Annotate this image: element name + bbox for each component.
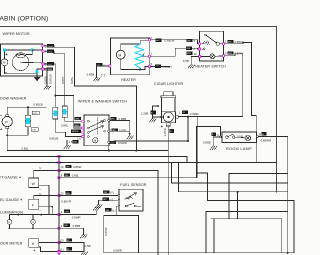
wire 0.5WR drop — [138, 216, 140, 253]
illum bottom dots — [9, 227, 11, 229]
pin 10 — [58, 169, 61, 172]
svg-text:0.85L: 0.85L — [21, 146, 29, 150]
wire y211 link — [206, 211, 288, 213]
svg-text:0.85L: 0.85L — [61, 123, 69, 127]
svg-text:0.5WR: 0.5WR — [190, 112, 199, 116]
svg-text:0.5B: 0.5B — [85, 244, 91, 248]
heater motor M — [116, 50, 125, 59]
wire S right-down — [44, 64, 55, 108]
svg-text:0.85W: 0.85W — [73, 165, 82, 169]
pin P — [42, 50, 45, 53]
svg-text:HEATER: HEATER — [121, 78, 136, 82]
svg-text:CIGAR LIGHTER: CIGAR LIGHTER — [154, 82, 184, 86]
wire hm pin1 — [39, 247, 59, 252]
heater tap arrow — [143, 54, 149, 57]
svg-text:0.85LB: 0.85LB — [33, 103, 42, 107]
pin heater left — [108, 65, 111, 68]
ground wiper motor — [34, 77, 40, 81]
label cigar bottom conn — [170, 129, 174, 133]
label cigar conn box — [150, 110, 155, 114]
fuel gauge box — [29, 199, 39, 209]
svg-text:05W: 05W — [110, 143, 114, 145]
ground ww — [127, 136, 134, 139]
svg-text:0.85B: 0.85B — [87, 73, 95, 77]
svg-text:05W: 05W — [65, 211, 69, 213]
wire wt minus down — [39, 185, 49, 214]
switch arm 1 — [89, 121, 104, 128]
pin ww3 — [81, 131, 84, 134]
junction cyan C — [36, 70, 39, 73]
svg-text:0.85LB: 0.85LB — [49, 136, 58, 140]
wire x237 drop — [237, 192, 239, 219]
pin hs L2 — [198, 48, 201, 51]
wire x281 drop — [281, 219, 283, 253]
pin E — [42, 68, 45, 71]
pin 8 — [58, 176, 61, 179]
wiper washer switch box — [84, 115, 109, 146]
heater switch box — [200, 31, 224, 61]
wire P right-down — [44, 51, 64, 106]
wire hs10 ground — [191, 56, 198, 64]
wire cigar right drop — [187, 117, 189, 141]
wire y173 link — [229, 173, 288, 175]
svg-text:LUMINATION: LUMINATION — [0, 211, 23, 215]
svg-text:B: B — [259, 132, 261, 136]
wire room switch to bulb — [235, 136, 245, 138]
ground room lamp — [210, 146, 217, 149]
wire heater3 up-right — [151, 65, 170, 67]
svg-text:12: 12 — [60, 191, 64, 195]
label (L) — [105, 208, 111, 211]
node bottom bus dot — [287, 252, 289, 254]
wire wt U to pin10 — [34, 171, 59, 179]
ground cigar — [150, 119, 157, 122]
wire hs R1 0.85LW down — [225, 42, 256, 162]
wire pump minus down — [7, 129, 168, 151]
wire 0.85W drop — [103, 216, 105, 253]
room lamp box — [222, 132, 257, 143]
heater switch lamp — [210, 54, 215, 59]
wire fuel L split — [104, 215, 139, 217]
wire fuel minus ground — [99, 200, 119, 204]
connector washer — [25, 115, 30, 127]
pin ww1 — [81, 120, 84, 123]
svg-text:/T GAUGE +: /T GAUGE + — [0, 175, 21, 179]
node S junction dot — [54, 95, 56, 97]
node cigar left terminal dot — [160, 116, 162, 118]
svg-text:0.85B: 0.85B — [73, 224, 81, 228]
heater switch contacts — [205, 34, 207, 36]
switch washer motor — [93, 138, 98, 143]
svg-text:10: 10 — [193, 52, 197, 56]
wire S branch to switch pin2 — [55, 96, 82, 128]
svg-text:OUR METER: OUR METER — [0, 241, 23, 245]
svg-text:0.5WR: 0.5WR — [118, 141, 127, 145]
label (Y) — [103, 190, 109, 193]
pin bus bottom — [58, 251, 61, 254]
svg-text:0.5B: 0.5B — [183, 59, 189, 63]
node y192 dot — [237, 191, 239, 193]
heater box — [111, 38, 150, 75]
svg-text:0.85B: 0.85B — [119, 129, 127, 133]
illum lamp2 — [31, 220, 36, 225]
wire hs R2 0.5RW down to cigar — [225, 54, 243, 117]
wire pin12 row to fuel sensor — [59, 195, 119, 197]
svg-text:DOW WASHER: DOW WASHER — [0, 97, 27, 101]
wire fuel L down — [116, 207, 118, 216]
pin 12 — [58, 194, 61, 197]
svg-text:1.0: 1.0 — [77, 137, 81, 141]
label connector ref 135 — [32, 111, 39, 114]
junction cyan B — [31, 49, 34, 52]
wire pump top to connector — [7, 107, 46, 115]
label ww pin2 — [74, 124, 81, 127]
wire cigar left terminal to ground drop — [153, 116, 162, 118]
switch arm 2 — [89, 126, 104, 132]
label ww r3 — [110, 141, 117, 144]
pin heater 1 — [148, 55, 151, 58]
pin 3 — [58, 213, 61, 216]
connector bus vertical — [58, 157, 60, 255]
wire room feed riser — [197, 127, 221, 178]
pin ww2 — [81, 127, 84, 130]
wiper motor M — [1, 59, 8, 66]
wire pin10 row to drop — [59, 171, 158, 255]
node fg minus dot — [51, 206, 53, 208]
ground E wire — [44, 86, 51, 89]
wire heater left ground — [97, 66, 109, 78]
wire x214 drop — [213, 219, 215, 253]
heater motor wires — [121, 40, 148, 50]
svg-text:15B: 15B — [73, 142, 77, 144]
pin S — [42, 63, 45, 66]
pin bus y162 — [58, 161, 61, 164]
wire cigar ground — [153, 106, 158, 119]
svg-text:0.85L: 0.85L — [70, 76, 74, 84]
svg-text:10: 10 — [60, 165, 64, 169]
wire lamp left — [200, 55, 210, 57]
label (-) — [103, 197, 109, 200]
wire P chain to switch pin1 — [65, 118, 83, 122]
wire washer connector to pump bottom — [7, 127, 28, 135]
svg-text:0.85YR: 0.85YR — [61, 199, 71, 203]
junction cyan A — [3, 49, 6, 52]
svg-text:0.85Y: 0.85Y — [61, 76, 65, 84]
svg-text:(L): (L) — [112, 209, 116, 213]
illum bottom wire — [10, 224, 59, 228]
pin (2) — [58, 241, 61, 244]
svg-text:085LB: 085LB — [72, 131, 79, 133]
wire heater2 to switch — [151, 40, 200, 44]
ground pin4 — [80, 235, 87, 238]
fuel sensor rheostat — [125, 193, 137, 200]
svg-text:FUEL SENSOR: FUEL SENSOR — [120, 183, 147, 187]
cigar element center — [167, 116, 169, 118]
wire room right down — [258, 137, 287, 253]
svg-text:0.85LW: 0.85LW — [49, 74, 53, 84]
wiper motor gear circle — [12, 54, 29, 71]
pin hs L3 — [198, 55, 201, 58]
node washer junction dot — [27, 106, 29, 108]
wire bus y183 — [172, 163, 288, 184]
cigar ground pin — [157, 105, 159, 107]
pin bus top — [58, 155, 61, 158]
ground pin3 — [93, 207, 100, 210]
cigar socket frame — [162, 112, 176, 123]
wire cigar right 0.5WR — [178, 116, 242, 118]
svg-text:0.5WR: 0.5WR — [113, 249, 122, 253]
pin room left — [219, 136, 221, 138]
label connector ref 136 — [31, 128, 38, 131]
wire S chain to switch pin3 — [55, 119, 82, 137]
cigar body — [162, 98, 175, 112]
wire motor- to ground — [5, 66, 38, 78]
wiper park cam — [16, 53, 26, 58]
wire fg U to pin12 — [34, 196, 59, 200]
node ww ground dot — [129, 133, 131, 135]
wire pin4 ground — [59, 228, 84, 234]
svg-text:WIPER MOTOR: WIPER MOTOR — [3, 32, 30, 36]
cigar element circle — [163, 112, 173, 122]
wiper motor box — [1, 44, 43, 76]
svg-text:0.85WR: 0.85WR — [261, 139, 271, 143]
fuel sensor pins — [118, 195, 120, 197]
wire washer connector drop — [27, 107, 29, 115]
connector P chain — [62, 106, 67, 118]
ground hm — [81, 252, 88, 255]
illum top dots — [17, 214, 19, 216]
wire motor+ top feed — [5, 50, 33, 59]
svg-text:0.85W: 0.85W — [104, 227, 108, 236]
pin ww right3 — [108, 141, 110, 143]
ground heater switch — [188, 65, 195, 68]
node B wire junction dot — [136, 150, 138, 152]
wire bus y156 — [0, 157, 187, 163]
wire cigar bottom down — [167, 126, 169, 255]
pin room right — [256, 136, 258, 138]
svg-text:(2): (2) — [60, 239, 64, 243]
fuel sensor float switch — [125, 205, 127, 207]
pin heater 3 — [148, 65, 151, 68]
pin B — [42, 44, 45, 47]
svg-text:05R: 05R — [187, 53, 191, 55]
wire x228 drop — [228, 174, 230, 219]
label heater 4 — [96, 63, 102, 66]
heater resistor endpoints — [139, 69, 141, 71]
switch pivots — [87, 120, 89, 122]
svg-text:(1): (1) — [60, 247, 64, 251]
wire park cam to P row — [32, 49, 42, 51]
svg-text:ABIN (OPTION): ABIN (OPTION) — [0, 16, 48, 23]
wire hm pin2 — [39, 242, 59, 244]
pin hs R1 — [222, 42, 225, 45]
ground 1.5B — [64, 145, 71, 148]
node pump bottom dot — [6, 134, 8, 136]
svg-text:+: + — [33, 249, 35, 253]
svg-text:EL GAUGE +: EL GAUGE + — [0, 198, 22, 202]
svg-text:F: F — [32, 204, 34, 208]
label hs 10 — [186, 52, 192, 55]
svg-text:U: U — [39, 166, 41, 170]
svg-text:P: P — [5, 120, 8, 125]
title underline rule — [0, 27, 276, 192]
wire stair to bottom right — [197, 173, 294, 253]
wire pin8 row — [59, 177, 197, 179]
pin ww right2 — [108, 130, 110, 132]
wire E row to ground node — [37, 69, 43, 74]
WT gauge box — [29, 178, 39, 187]
illum top wire — [10, 215, 59, 220]
label ww pin1 — [75, 117, 82, 120]
svg-text:05R: 05R — [228, 53, 232, 55]
connector S chain — [53, 107, 58, 119]
pin hs R2 — [222, 54, 225, 57]
ground fuel sensor — [96, 205, 103, 208]
wire ww r1 to r2 ground — [110, 120, 130, 133]
wire fg minus down — [39, 207, 53, 215]
label hs 3 — [186, 47, 192, 50]
illum lamp1 — [7, 220, 12, 225]
wire room left ground — [213, 137, 219, 146]
pin (1) — [58, 250, 61, 253]
svg-text:0.85B: 0.85B — [44, 76, 48, 84]
svg-text:−: − — [39, 188, 41, 192]
wire bottom bus — [104, 252, 294, 254]
svg-text:(−): (−) — [101, 73, 105, 77]
svg-text:ROOM LAMP: ROOM LAMP — [226, 147, 252, 151]
wire lamp right — [215, 55, 224, 58]
svg-text:0.5WR: 0.5WR — [72, 215, 81, 219]
wire x206 drop — [205, 212, 207, 253]
wire y192 link — [179, 163, 288, 192]
wire ww pin3 down stub — [108, 143, 110, 150]
pin 4 — [58, 227, 61, 230]
heater resistor cyan — [135, 44, 144, 70]
wire pin3 to ground — [59, 210, 96, 214]
wire B right-down — [44, 46, 136, 151]
room lamp bulb — [245, 135, 251, 141]
wire y219 link — [211, 218, 282, 220]
fuel sensor box — [119, 189, 143, 211]
svg-text:(Y): (Y) — [110, 191, 114, 195]
svg-text:−: − — [39, 209, 41, 213]
node cigar drop dot — [187, 140, 189, 142]
label hs 6 — [187, 39, 193, 42]
wire 1.5B ground to switch pin4 — [66, 140, 68, 145]
washer pump P — [2, 117, 12, 127]
pin ww4 — [81, 135, 84, 138]
svg-text:0.85L: 0.85L — [72, 174, 80, 178]
hour meter box — [29, 239, 39, 248]
wire E to ground — [44, 69, 47, 86]
switch link dashed — [97, 118, 99, 135]
wire bus y162 — [0, 162, 276, 164]
svg-text:0.85B: 0.85B — [203, 140, 211, 144]
wire pin2 to pin1 join — [59, 243, 84, 252]
heater switch contact stubs — [202, 41, 210, 49]
heater switch pivot — [216, 42, 219, 45]
label ww pin3 — [71, 130, 81, 133]
pin ww right1 — [108, 119, 110, 121]
pin hs L1 — [198, 42, 201, 45]
wire gear to S row — [21, 61, 43, 64]
cigar bottom electrode — [166, 123, 170, 126]
svg-text:1.25B: 1.25B — [141, 111, 149, 115]
node ww stub dot — [108, 150, 110, 152]
ground heater — [94, 78, 101, 81]
svg-text:1.25W: 1.25W — [163, 128, 167, 137]
wire stair room feed — [196, 117, 198, 178]
cigar terminal right — [176, 116, 179, 119]
svg-text:M: M — [119, 53, 122, 57]
room lamp switch — [226, 136, 229, 139]
wire ww r3 0.5WR — [110, 141, 188, 142]
pin heater 2 — [148, 38, 151, 41]
svg-text:WIPER & WASHER SWITCH: WIPER & WASHER SWITCH — [78, 100, 127, 104]
label ww r1 — [110, 117, 116, 120]
cigar plug flange — [161, 96, 176, 98]
heater switch arm — [206, 35, 216, 43]
label room left 6 — [211, 132, 216, 136]
wire pivot to right pin — [219, 43, 223, 45]
svg-text:HEATER SWITCH: HEATER SWITCH — [195, 64, 226, 68]
svg-text:085B: 085B — [47, 69, 52, 71]
svg-text:(−): (−) — [110, 198, 114, 202]
node cigar right dot — [187, 116, 189, 118]
cigar plug knob — [164, 92, 173, 96]
switch contacts right — [104, 120, 106, 122]
wire heater1 to switch pin — [151, 48, 200, 56]
